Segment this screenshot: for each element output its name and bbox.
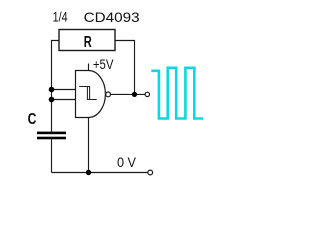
nand gate U1 body [76,71,106,118]
node junction output [132,92,137,97]
svg-text:+5V: +5V [93,57,114,72]
capacitor C plate top [37,132,66,135]
wire input lower [52,99,76,101]
svg-text:C: C [28,111,37,128]
wire R right over and down to output [115,41,135,95]
node junction upper input [49,87,55,93]
terminal ground [148,170,153,175]
capacitor C plate bottom [37,137,66,140]
wire capacitor to rail [51,139,53,172]
terminal output [145,92,149,96]
svg-text:CD4093: CD4093 [84,9,140,25]
node junction ground [86,170,91,175]
wire R left to corner and down [52,41,60,132]
waveform output square wave [151,68,203,119]
svg-text:R: R [84,34,92,51]
wire ground rail [52,172,148,174]
resistor R [59,30,115,51]
output bubble [106,92,111,97]
node junction lower input [49,97,55,103]
power pin stub [88,64,90,71]
wire output [111,93,146,95]
svg-text:1/4: 1/4 [53,10,68,25]
schmitt hysteresis symbol [79,87,97,100]
svg-text:0 V: 0 V [117,154,137,170]
wire input upper [52,89,76,91]
ground pin wire [88,118,90,173]
